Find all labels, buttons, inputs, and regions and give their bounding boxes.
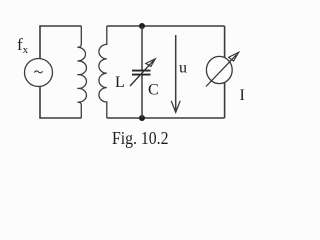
svg-text:u: u	[179, 60, 187, 77]
node: junction bottom of capacitor branch	[139, 115, 145, 121]
svg-text:fx: fx	[17, 35, 29, 56]
meter I (ammeter)	[206, 52, 239, 86]
wire: right loop bottom rail	[107, 117, 225, 119]
wire: capacitor branch lower lead	[141, 75, 143, 118]
svg-text:Fig. 10.2: Fig. 10.2	[112, 128, 169, 148]
wire: capacitor branch upper lead	[141, 26, 143, 70]
wire: left loop bottom (source bottom to primary coil bottom corner)	[40, 87, 81, 119]
svg-text:I: I	[240, 87, 245, 104]
node: junction top of capacitor branch	[139, 23, 145, 29]
transformer primary winding	[77, 26, 86, 118]
voltage arrow u	[171, 35, 180, 112]
wire: right vertical top stub (to meter)	[224, 26, 226, 58]
svg-text:C: C	[148, 82, 159, 99]
capacitor C (variable): top plate	[132, 70, 151, 72]
wire: right loop top rail	[107, 25, 225, 27]
wire: left loop top (source top to primary coil top corner)	[40, 26, 81, 59]
capacitor C: variable-adjust arrow	[130, 59, 155, 86]
transformer secondary winding L	[99, 26, 107, 118]
svg-text:L: L	[115, 74, 125, 91]
wire: right vertical bottom stub (from meter)	[224, 83, 226, 119]
AC source G1 (sine generator)	[25, 59, 53, 87]
capacitor C (variable): bottom plate	[132, 74, 151, 76]
